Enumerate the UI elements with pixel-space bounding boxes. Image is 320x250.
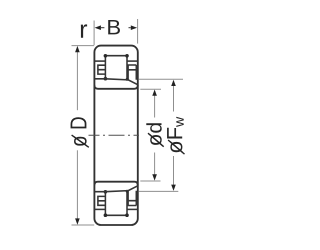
- label oFw (rotated): [167, 117, 184, 154]
- dim line oD lower segment: [76, 150, 78, 219]
- label B: [108, 20, 120, 34]
- bearing outer silhouette: [94, 46, 137, 225]
- outer ring flange bottom left (top section): [94, 60, 105, 62]
- arrow oD top: [75, 46, 80, 52]
- B ext line right: [137, 19, 139, 44]
- B arrow right: [131, 25, 137, 30]
- dim line od upper segment: [154, 95, 156, 118]
- arrow oFw bottom: [171, 185, 176, 191]
- arrow od top: [152, 90, 157, 96]
- dim ext line oFw bottom: [139, 190, 179, 192]
- dim ext line oFw top: [139, 78, 183, 80]
- roller (top section): [105, 56, 127, 80]
- outer ring flange bottom right (bottom section): [127, 208, 138, 210]
- label r: [81, 24, 87, 37]
- label od (rotated): [146, 123, 162, 146]
- centerline (axis): [89, 134, 140, 136]
- dim ext line oD bottom: [72, 224, 95, 226]
- dim ext line od top: [140, 88, 161, 90]
- roller (bottom section): [105, 191, 127, 215]
- dim line oFw lower segment: [173, 156, 175, 186]
- cage ladder left (top section): [98, 65, 106, 74]
- arrow oD bottom: [75, 218, 80, 224]
- B ext line left: [93, 21, 95, 46]
- inner ring raceway (bottom section): [94, 186, 137, 192]
- dim line od lower segment: [154, 153, 156, 176]
- arrow oFw top: [171, 80, 176, 86]
- roller corner dots (top section): [104, 54, 129, 81]
- B arrow left: [95, 25, 101, 30]
- inner ring bore line (top section): [94, 85, 137, 89]
- dim ext line od bottom: [140, 180, 160, 182]
- arrow od bottom: [152, 174, 157, 180]
- cage/rib block right (bottom section): [127, 191, 136, 206]
- dim line oD upper segment: [76, 52, 78, 111]
- label oD (rotated): [71, 117, 87, 146]
- cage ladder left (bottom section): [98, 196, 106, 205]
- dim line oFw upper segment: [173, 85, 175, 112]
- dim ext line oD top: [72, 45, 95, 47]
- roller corner dots (bottom section): [104, 190, 129, 217]
- inner ring bore line (bottom section): [94, 182, 137, 186]
- inner ring raceway (top section): [94, 79, 137, 85]
- cage/rib block right (top section): [127, 65, 136, 80]
- outer ring flange bottom right (top section): [127, 60, 138, 62]
- outer ring flange bottom left (bottom section): [94, 208, 105, 210]
